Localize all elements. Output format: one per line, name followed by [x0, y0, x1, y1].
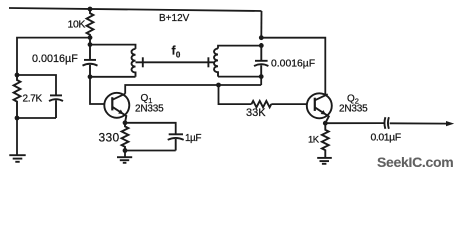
wire 330 to ground — [124, 151, 126, 158]
wire Q1 base — [90, 77, 104, 104]
resistor 33K — [252, 101, 272, 107]
wire Q1 collector — [125, 85, 261, 94]
wire 2.7K to ground — [16, 118, 18, 155]
svg-text:2.7K: 2.7K — [23, 94, 43, 105]
wire tap to 33K — [219, 85, 252, 104]
svg-text:B+12V: B+12V — [159, 13, 190, 24]
resistor 1K — [322, 123, 329, 158]
wire 33K to Q2 base — [271, 103, 307, 105]
node rail-10K junction — [88, 7, 93, 12]
wire B+ supply rail — [9, 8, 262, 11]
wire emitter to 1uF — [125, 123, 176, 134]
capacitor 0.0016uF right — [254, 43, 268, 77]
wire output — [325, 122, 384, 124]
wire to left branch — [17, 38, 90, 75]
wire right tank top — [218, 46, 261, 49]
wire bypass cap bottom — [17, 117, 56, 119]
node 2.7K top — [15, 73, 20, 78]
svg-text:2N335: 2N335 — [135, 104, 164, 115]
svg-text:33K: 33K — [246, 107, 266, 119]
wire tick right — [207, 57, 209, 67]
node right tank top feed — [259, 35, 264, 40]
svg-text:0.0016µF: 0.0016µF — [271, 59, 315, 70]
wire tank bottom to collector line — [260, 77, 262, 85]
transistor Q1 — [104, 93, 129, 123]
ground Q2 emitter — [317, 158, 332, 164]
node tank1 bottom — [88, 74, 93, 79]
svg-text:0.01µF: 0.01µF — [371, 132, 401, 144]
node right tank top — [259, 43, 264, 48]
svg-text:2N335: 2N335 — [339, 104, 368, 115]
node 330 bottom — [123, 148, 128, 153]
node 2.7K bottom — [15, 116, 20, 121]
resistor 2.7K — [14, 75, 21, 118]
node collector tap — [216, 83, 221, 88]
node cap C1 top — [88, 42, 93, 47]
capacitor 0.0016uF left — [83, 39, 98, 77]
resistor 330 — [122, 123, 129, 151]
svg-text:0.0016µF: 0.0016µF — [32, 53, 78, 65]
inductor L2 — [214, 49, 218, 77]
capacitor 1uF — [168, 134, 184, 150]
wire right tank bottom — [218, 76, 261, 78]
node Q2 emitter — [323, 121, 328, 126]
wire coupling line f0 — [136, 61, 214, 63]
svg-text:1K: 1K — [308, 135, 320, 146]
wire left tank top — [90, 45, 136, 49]
inductor L1 — [132, 49, 136, 77]
svg-text:10K: 10K — [68, 19, 86, 31]
svg-text:1µF: 1µF — [185, 133, 201, 144]
wire output to arrow — [390, 122, 448, 124]
node Q1 emitter — [123, 120, 128, 125]
node 10K bottom junction — [88, 35, 93, 40]
ground Q1 emitter — [117, 157, 132, 163]
wire bypass cap top — [17, 75, 56, 95]
wire tick left — [142, 57, 144, 67]
capacitor 0.01uF output — [384, 117, 388, 129]
resistor 10K — [87, 9, 94, 38]
node right tank bottom — [259, 74, 264, 79]
svg-text:SeekIC.com: SeekIC.com — [377, 154, 453, 170]
wire to Q2 collector — [261, 38, 325, 94]
transistor Q2 — [307, 93, 332, 123]
wire right vertical from rail — [260, 11, 262, 38]
svg-text:330: 330 — [99, 131, 120, 145]
ground left — [9, 155, 25, 162]
capacitor bypass (unlabeled) — [49, 95, 63, 118]
arrow output — [446, 121, 454, 126]
wire 1uF bottom — [125, 150, 176, 152]
svg-text:f0: f0 — [172, 44, 181, 60]
wire left tank bottom — [90, 76, 136, 78]
